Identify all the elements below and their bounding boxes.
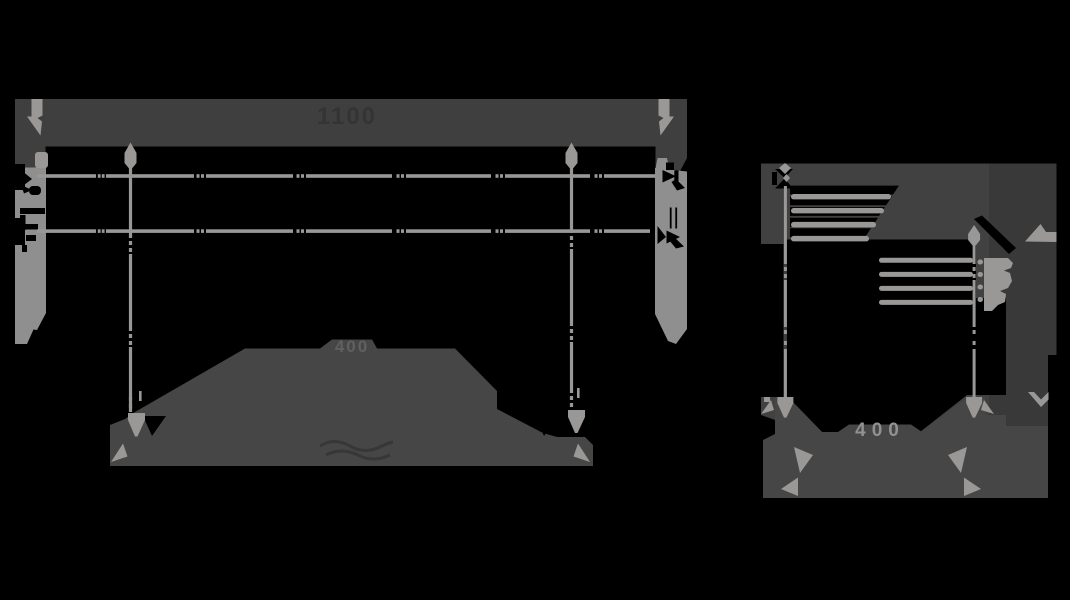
svg-text:1100: 1100 <box>317 103 377 130</box>
svg-text:400: 400 <box>855 420 905 441</box>
svg-text:400: 400 <box>335 337 369 356</box>
